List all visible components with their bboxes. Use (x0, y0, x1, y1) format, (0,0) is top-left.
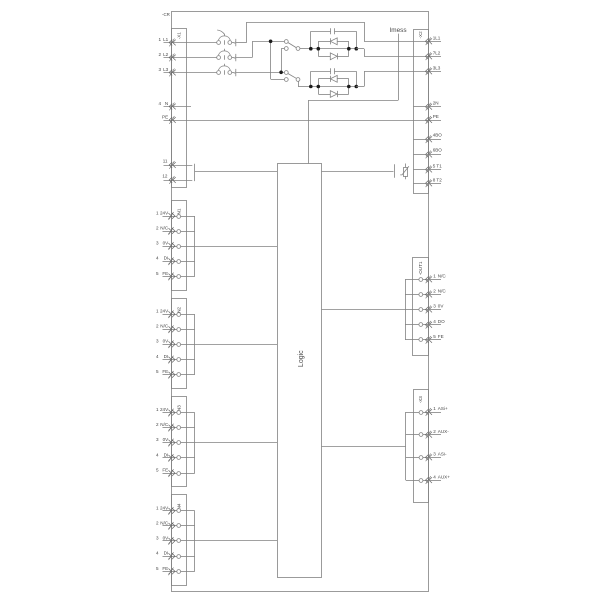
svg-text:DI: DI (164, 354, 169, 359)
svg-text:4: 4 (156, 551, 159, 556)
svg-text:3: 3 (156, 240, 159, 245)
svg-text:3: 3 (433, 304, 436, 309)
svg-text:3: 3 (156, 437, 159, 442)
svg-text:4: 4 (156, 256, 159, 261)
svg-text:1: 1 (158, 37, 161, 42)
svg-text:DI: DI (164, 551, 169, 556)
svg-text:24V: 24V (160, 407, 169, 412)
svg-text:5: 5 (156, 468, 159, 473)
svg-text:2: 2 (156, 225, 159, 230)
svg-text:AUX-: AUX- (438, 429, 449, 434)
svg-text:3: 3 (156, 535, 159, 540)
svg-text:2: 2 (156, 520, 159, 525)
svg-text:FE: FE (162, 369, 168, 374)
svg-text:11: 11 (163, 158, 168, 163)
svg-text:FE: FE (162, 468, 168, 473)
svg-text:1: 1 (156, 407, 159, 412)
svg-text:1: 1 (433, 274, 436, 279)
svg-text:N/C: N/C (160, 324, 169, 329)
svg-text:N/C: N/C (438, 289, 447, 294)
svg-text:Logic: Logic (298, 350, 305, 367)
svg-text:1: 1 (156, 505, 159, 510)
svg-text:0V: 0V (163, 240, 170, 245)
svg-text:5: 5 (433, 334, 436, 339)
svg-text:3: 3 (158, 67, 161, 72)
svg-text:2: 2 (156, 324, 159, 329)
svg-text:AUX+: AUX+ (438, 474, 450, 479)
svg-text:-X1: -X1 (177, 32, 182, 40)
svg-text:5: 5 (156, 566, 159, 571)
svg-text:-OUT1: -OUT1 (418, 261, 423, 275)
svg-text:2: 2 (433, 429, 436, 434)
svg-text:0V: 0V (438, 304, 445, 309)
svg-text:L1: L1 (163, 37, 169, 42)
svg-text:4: 4 (433, 474, 436, 479)
svg-text:24V: 24V (160, 309, 169, 314)
svg-text:ASi-: ASi- (438, 452, 447, 457)
svg-text:3: 3 (156, 339, 159, 344)
svg-text:5: 5 (156, 369, 159, 374)
svg-text:4: 4 (433, 319, 436, 324)
svg-text:24V: 24V (160, 505, 169, 510)
svg-text:1: 1 (156, 309, 159, 314)
svg-text:0V: 0V (163, 437, 170, 442)
svg-text:ASi+: ASi+ (438, 406, 448, 411)
svg-text:-CR: -CR (162, 12, 170, 17)
svg-text:6BO: 6BO (433, 148, 443, 153)
svg-text:8 T2: 8 T2 (433, 177, 443, 182)
svg-text:1L1: 1L1 (433, 35, 441, 40)
svg-text:FE: FE (438, 334, 444, 339)
svg-text:PE: PE (433, 114, 439, 119)
svg-text:N/C: N/C (438, 274, 447, 279)
svg-text:4: 4 (156, 354, 159, 359)
svg-text:5 T1: 5 T1 (433, 164, 443, 169)
svg-text:L3: L3 (163, 67, 169, 72)
svg-text:4: 4 (158, 101, 161, 106)
svg-text:N/C: N/C (160, 225, 169, 230)
svg-text:3: 3 (433, 452, 436, 457)
svg-text:4: 4 (156, 452, 159, 457)
svg-text:2: 2 (156, 422, 159, 427)
svg-text:N/C: N/C (160, 422, 169, 427)
svg-text:1: 1 (433, 406, 436, 411)
svg-text:0V: 0V (163, 339, 170, 344)
svg-text:1: 1 (156, 210, 159, 215)
svg-text:4BO: 4BO (433, 132, 443, 137)
svg-text:-X2: -X2 (418, 31, 423, 39)
svg-text:3L3: 3L3 (433, 65, 441, 70)
svg-text:2: 2 (158, 52, 161, 57)
svg-text:PE: PE (162, 114, 168, 119)
svg-text:24V: 24V (160, 210, 169, 215)
svg-text:Imess: Imess (389, 27, 406, 34)
svg-text:7L2: 7L2 (433, 50, 441, 55)
svg-text:N: N (165, 101, 168, 106)
svg-text:-X3: -X3 (418, 396, 423, 404)
svg-text:DO: DO (438, 319, 445, 324)
svg-text:L2: L2 (163, 52, 169, 57)
svg-text:2: 2 (433, 289, 436, 294)
svg-text:12: 12 (162, 173, 168, 178)
svg-text:DI: DI (164, 452, 169, 457)
svg-text:N/C: N/C (160, 520, 169, 525)
svg-text:2N: 2N (433, 101, 439, 106)
svg-text:FE: FE (162, 566, 168, 571)
svg-text:DI: DI (164, 256, 169, 261)
svg-text:0V: 0V (163, 535, 170, 540)
svg-text:5: 5 (156, 271, 159, 276)
svg-text:FE: FE (162, 271, 168, 276)
